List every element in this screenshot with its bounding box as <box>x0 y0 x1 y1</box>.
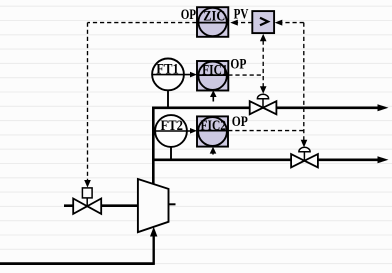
svg-text:ZIC: ZIC <box>203 9 225 25</box>
svg-text:FT1: FT1 <box>156 61 179 77</box>
svg-text:OP: OP <box>232 114 248 130</box>
svg-text:PV: PV <box>234 7 249 23</box>
svg-text:FIC1: FIC1 <box>202 62 228 78</box>
svg-text:FT2: FT2 <box>161 118 184 134</box>
svg-text:OP: OP <box>181 7 196 23</box>
svg-text:FIC2: FIC2 <box>201 118 227 134</box>
svg-text:OP: OP <box>230 56 246 72</box>
